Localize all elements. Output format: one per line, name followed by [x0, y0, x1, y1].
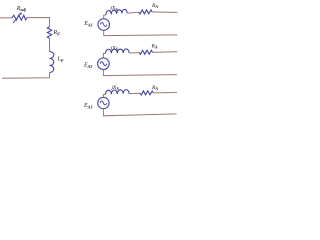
wire: source top to coil	[103, 94, 105, 97]
wire: resistor to corner, down to R_F	[27, 18, 50, 27]
wire: L_F down and left bottom rail	[2, 73, 50, 79]
field circuit: top wire left segment	[0, 17, 12, 19]
wire: R_F to L_F	[49, 39, 51, 52]
svg-text:jXS: jXS	[111, 85, 120, 91]
svg-text:RA: RA	[151, 44, 158, 50]
resistor R_A1	[139, 10, 152, 14]
svg-text:Radj: Radj	[16, 6, 27, 12]
wire: resistor to right edge	[153, 51, 178, 54]
wire: coil to resistor	[129, 92, 140, 94]
svg-text:jXS: jXS	[110, 45, 119, 51]
wire: source top to coil	[104, 15, 106, 19]
wire: coil to resistor	[129, 52, 139, 54]
svg-text:EA1: EA1	[83, 21, 92, 27]
svg-text:jXS: jXS	[109, 6, 118, 12]
svg-text:LF: LF	[57, 57, 64, 63]
wire: resistor to right edge	[153, 91, 177, 94]
wire: source bottom rail	[103, 109, 176, 116]
svg-text:EA3: EA3	[83, 103, 92, 109]
wire: coil to resistor	[127, 11, 139, 14]
inductor jXs2	[105, 49, 129, 53]
resistor R_A3	[140, 91, 153, 95]
source E_A3	[98, 97, 109, 108]
inductor jXs3	[105, 90, 129, 95]
resistor R_adj (variable)	[12, 15, 27, 20]
inductor jXs1	[106, 9, 127, 14]
wire: source bottom rail	[104, 30, 178, 35]
resistor R_F	[47, 27, 51, 39]
arrow of variable resistor	[13, 14, 21, 23]
resistor R_A2	[139, 50, 152, 54]
wire: resistor to right edge	[152, 11, 177, 13]
svg-text:RF: RF	[53, 30, 61, 36]
svg-text:RA: RA	[151, 85, 158, 91]
wire: source bottom rail	[103, 70, 177, 76]
inductor L_F	[50, 52, 54, 73]
source E_A1	[98, 19, 110, 31]
svg-text:RA: RA	[151, 3, 158, 9]
source E_A2	[98, 58, 110, 70]
wire: source top to coil	[103, 53, 105, 58]
svg-text:EA2: EA2	[83, 63, 92, 69]
